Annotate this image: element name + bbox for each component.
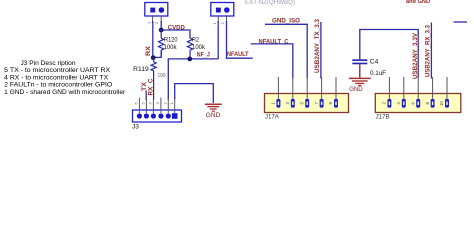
svg-text:J3: J3 [132, 124, 140, 131]
J17A pin 3 [285, 77, 295, 108]
J17B pin 10 [439, 77, 449, 108]
wire USB2ANY_RX_3.3 [430, 23, 432, 79]
J17A pin 1 [271, 77, 281, 108]
svg-text:GND_ISO: GND_ISO [272, 18, 300, 25]
svg-text:R119: R119 [133, 66, 149, 73]
wire P1 pin2 down to CVDD junction [160, 21, 162, 30]
svg-text:USB2ANY_TX_3.3: USB2ANY_TX_3.3 [314, 18, 321, 73]
svg-text:4 RX - to microcontroller UART: 4 RX - to microcontroller UART TX [4, 74, 109, 81]
svg-text:and GND: and GND [406, 0, 430, 5]
svg-text:2 FAULTn - to microcontroller: 2 FAULTn - to microcontroller GPIO [4, 82, 112, 89]
svg-text:1: 1 [169, 102, 174, 105]
svg-text:1: 1 [147, 21, 152, 24]
svg-text:GND: GND [206, 112, 221, 119]
resistor R2 [187, 38, 192, 59]
svg-text:3: 3 [155, 102, 160, 105]
svg-text:100: 100 [158, 73, 166, 79]
wire GND_ISO [265, 24, 307, 78]
svg-text:J3 Pin Desc ription: J3 Pin Desc ription [21, 60, 76, 67]
J3 pad 3 [158, 113, 163, 118]
wire NFAULT_C [251, 44, 293, 79]
ground GND (left) [205, 104, 222, 111]
J17B pin 8 [425, 77, 435, 108]
wire TX stub above J3 pin 5 [145, 91, 147, 101]
svg-text:2: 2 [220, 22, 225, 25]
junction CVDD [159, 28, 164, 33]
svg-text:R120: R120 [164, 37, 178, 44]
svg-text:RX: RX [145, 45, 152, 56]
P2 pin 1 lead [217, 16, 219, 23]
P2 pin 2 lead [226, 16, 228, 23]
wire P2 pin1 down to NF_J [217, 21, 219, 59]
svg-text:2: 2 [154, 21, 159, 24]
svg-text:TX: TX [141, 81, 148, 91]
svg-text:USB2ANY_RX_3.3: USB2ANY_RX_3.3 [425, 24, 432, 77]
svg-text:2: 2 [163, 102, 168, 105]
P1 pin 1 lead [152, 16, 154, 23]
J3 pad 4 [151, 113, 156, 118]
svg-text:RX_C: RX_C [148, 78, 155, 96]
wire RX: P1 pin1 down to junction [152, 21, 154, 58]
resistor R120 [159, 30, 164, 57]
junction RX [151, 55, 156, 60]
wire CVDD horizontal to R2 top [161, 30, 190, 38]
connector J17B [375, 94, 461, 113]
resistor R119 [151, 58, 156, 100]
P1 pin 2 lead [160, 16, 162, 23]
wire fragment top right [454, 21, 468, 23]
svg-text:100k: 100k [164, 44, 178, 51]
J3 pad 6 [137, 113, 142, 118]
wire USB2ANY_3.3V / C4 top [360, 30, 418, 79]
J17A pin 7 [314, 77, 324, 108]
svg-text:1: 1 [212, 22, 217, 25]
junction NF_J [187, 57, 192, 62]
svg-text:5 TX - to microcontroller UART: 5 TX - to microcontroller UART RX [4, 67, 111, 74]
svg-text:NFAULT: NFAULT [227, 51, 249, 58]
header P2 (2-pin jumper) [211, 3, 234, 17]
header P1 (2-pin jumper) [145, 3, 168, 17]
J17B pin 2 [382, 77, 392, 108]
J3 pad 1 (square) [172, 113, 178, 119]
svg-text:6: 6 [134, 102, 139, 105]
wire R120 bottom to RX junction [153, 50, 161, 57]
svg-text:5: 5 [141, 102, 146, 105]
J3 pin stubs [139, 98, 174, 114]
J17A pin 9 [328, 77, 338, 108]
ground GND (center, under C4) [349, 78, 371, 85]
svg-text:1 GND - shared GND with microc: 1 GND - shared GND with microcontroller [4, 89, 126, 96]
J3 pin numbers [134, 102, 174, 105]
svg-text:0.1uF: 0.1uF [370, 70, 386, 77]
J17B pin 6 [410, 77, 420, 108]
wire NFAULT [227, 21, 253, 58]
J17B pin 4 [396, 77, 406, 108]
wire NF_J horizontal [168, 59, 218, 100]
svg-text:EXT-NZ(QHWBQ): EXT-NZ(QHWBQ) [245, 0, 295, 6]
J3 pad 5 [144, 113, 149, 118]
connector J3 [133, 110, 182, 122]
svg-text:C4: C4 [370, 58, 379, 65]
svg-text:NF_J: NF_J [197, 52, 210, 59]
svg-text:100k: 100k [192, 44, 206, 51]
connector J17A [265, 94, 349, 113]
J17A pin 5 [299, 77, 309, 108]
wire USB2ANY_TX_3.3 [320, 22, 322, 79]
J3 pad 2 [166, 113, 171, 118]
svg-text:4: 4 [148, 102, 153, 105]
svg-text:USB2ANY_3.3V: USB2ANY_3.3V [412, 32, 419, 79]
svg-text:R2: R2 [192, 36, 199, 43]
svg-text:GND: GND [349, 86, 363, 93]
note text block: J3 pin description [4, 60, 126, 96]
wire GND from J3 pin1 [175, 84, 214, 103]
capacitor C4 [352, 59, 367, 78]
svg-text:J17B: J17B [376, 114, 390, 121]
svg-text:10: 10 [439, 101, 444, 106]
svg-text:J17A: J17A [265, 114, 280, 121]
